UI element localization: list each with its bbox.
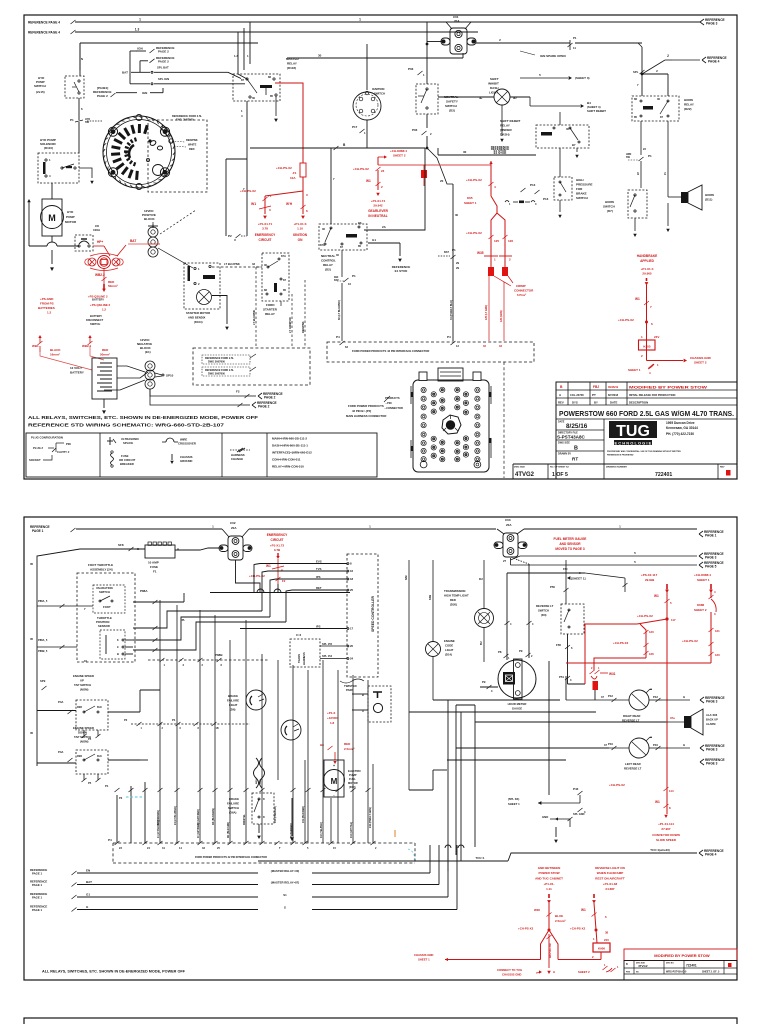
svg-text:25: 25 (350, 588, 354, 592)
svg-text:7: 7 (637, 83, 639, 87)
svg-text:BY: BY (594, 401, 598, 405)
svg-text:6: 6 (306, 209, 308, 213)
svg-text:HORN: HORN (705, 193, 714, 197)
red crimp connector label (494, 276, 511, 286)
svg-text:C03: C03 (505, 518, 511, 522)
wire horn relay top (641, 70, 643, 74)
svg-text:NEUTRAL: NEUTRAL (321, 254, 335, 258)
red chassis gnd arrow (647, 360, 684, 362)
svg-text:+P1-X1.72: +P1-X1.72 (270, 544, 285, 548)
wire bundle top verticals (239, 564, 241, 593)
svg-text:87A: 87A (320, 243, 325, 247)
svg-text:W31: W31 (609, 672, 616, 676)
twisted pair braid (254, 758, 259, 788)
svg-text:1: 1 (139, 18, 141, 22)
svg-text:LIGHT: LIGHT (229, 703, 238, 707)
alternator ref dashed box (148, 120, 207, 192)
svg-text:+P1-X1.74: +P1-X1.74 (371, 199, 386, 203)
svg-text:+P1-X1.38: +P1-X1.38 (603, 882, 618, 886)
svg-text:BAT: BAT (122, 71, 128, 75)
svg-text:PAGE 5: PAGE 5 (705, 565, 717, 569)
svg-text:...PIN: ...PIN (385, 401, 392, 405)
wire e1 to battery (104, 380, 145, 390)
svg-text:D: D (263, 816, 265, 819)
svg-text:BLOCK: BLOCK (144, 217, 155, 221)
wire e1 down bus (150, 389, 175, 396)
svg-text:+P1-X1:4: +P1-X1:4 (641, 267, 654, 271)
svg-text:W'H: W'H (286, 202, 293, 206)
svg-text:29: 29 (456, 261, 460, 265)
svg-text:10: 10 (84, 659, 88, 663)
svg-text:REVERSE LT: REVERSE LT (624, 767, 642, 771)
svg-text:1.3: 1.3 (234, 54, 238, 58)
alternator terminals (161, 126, 165, 130)
svg-text:17: 17 (350, 627, 354, 631)
svg-text:RED: RED (450, 598, 456, 602)
svg-text:T E C H N O L O G I E S: T E C H N O L O G I E S (611, 440, 655, 445)
svg-text:SPLICE: SPLICE (123, 441, 133, 445)
alternator bolt bosses (160, 168, 169, 177)
diagnostic dashed box p2 (368, 686, 391, 722)
svg-text:REV: REV (720, 467, 725, 469)
svg-text:P88A: P88A (140, 589, 148, 593)
svg-text:1: 1 (198, 267, 200, 271)
svg-text:REVERSE LT: REVERSE LT (536, 604, 554, 608)
svg-text:P17: P17 (352, 125, 358, 129)
connector corner pins (420, 461, 427, 468)
red square p2 (593, 681, 599, 690)
svg-text:DASH=HRN-660-2B-111-1: DASH=HRN-660-2B-111-1 (272, 444, 308, 448)
svg-text:WHITE: WHITE (188, 143, 197, 147)
svg-text:CROSSOVER: CROSSOVER (178, 442, 196, 446)
svg-text:GROUND: GROUND (180, 459, 192, 463)
svg-text:35: 35 (30, 731, 34, 735)
svg-text:BLK: BLK (97, 706, 102, 709)
svg-text:REV: REV (558, 401, 564, 405)
svg-text:+12VDC: +12VDC (327, 716, 339, 720)
legend chassis ground (171, 454, 173, 460)
svg-text:IPL: IPL (181, 618, 185, 622)
svg-text:PAGE 3: PAGE 3 (706, 762, 718, 766)
svg-text:REFERENCE FORD 2.5L: REFERENCE FORD 2.5L (172, 114, 202, 118)
svg-text:P88B: P88B (215, 653, 223, 657)
svg-text:125 (LT GRN): 125 (LT GRN) (485, 305, 488, 320)
svg-text:GRN: GRN (260, 779, 262, 784)
wire c02 dips (222, 529, 229, 537)
alternator small glyphs right (149, 140, 156, 147)
svg-text:SHIFT: SHIFT (490, 77, 499, 81)
reference page 4 arrow right (642, 60, 665, 74)
svg-text:DWG 3H87000: DWG 3H87000 (208, 373, 226, 376)
svg-text:1: 1 (241, 109, 243, 113)
svg-text:1: 1 (49, 158, 51, 162)
svg-text:M: M (331, 777, 338, 786)
svg-text:3: 3 (162, 727, 164, 730)
wire relay 87 down (341, 250, 343, 258)
right rear reverse lamp (629, 690, 649, 710)
svg-text:5: 5 (539, 73, 541, 77)
svg-text:SP9: SP9 (40, 679, 46, 683)
wire bat red v (104, 246, 110, 256)
svg-text:SW: SW (85, 121, 90, 124)
wire motor bottom bus (29, 245, 47, 247)
svg-text:HORN: HORN (605, 200, 614, 204)
svg-text:8: 8 (669, 806, 671, 810)
svg-text:ENGINE SPEED: ENGINE SPEED (73, 726, 94, 730)
svg-text:MODIFIED BY POWER STOW: MODIFIED BY POWER STOW (654, 953, 710, 958)
wire alternator dashes (160, 210, 196, 234)
wire ignition bus down x427 (426, 22, 428, 44)
svg-text:30: 30 (657, 97, 660, 101)
svg-text:BLK: BLK (97, 755, 102, 758)
svg-text:FORD: FORD (266, 303, 275, 307)
svg-text:P03: P03 (408, 67, 414, 71)
svg-text:SW: SW (626, 156, 631, 159)
svg-text:20: 20 (350, 644, 354, 648)
svg-text:SWITCH: SWITCH (99, 590, 110, 594)
svg-text:SHEET 1: SHEET 1 (508, 802, 520, 806)
42 pin connector body (413, 380, 489, 472)
svg-text:ENGINE SPEED: ENGINE SPEED (73, 674, 94, 678)
svg-text:6: 6 (651, 322, 653, 326)
legend box (26, 433, 377, 477)
svg-text:BATTERY: BATTERY (92, 298, 104, 302)
svg-text:P88A_5: P88A_5 (38, 599, 48, 603)
svg-text:18: 18 (350, 577, 354, 581)
svg-text:85: 85 (283, 288, 286, 292)
svg-text:8/25/16: 8/25/16 (566, 423, 588, 430)
connector pins (421, 387, 426, 392)
svg-text:1: 1 (657, 363, 659, 367)
svg-text:TCU=1: TCU=1 (476, 856, 485, 860)
svg-text:3: 3 (570, 678, 572, 682)
red crimp square on wire (421, 170, 427, 178)
svg-text:+P1-X: +P1-X (327, 711, 335, 715)
svg-text:P1: P1 (452, 248, 456, 252)
svg-text:P2: P2 (228, 234, 232, 238)
red horizontal y663 (566, 662, 711, 664)
svg-text:722401: 722401 (686, 964, 697, 968)
svg-text:PUMP: PUMP (66, 215, 75, 219)
svg-text:GND: GND (542, 815, 548, 819)
svg-text:4: 4 (241, 114, 243, 118)
svg-text:FUSE: FUSE (150, 565, 158, 569)
svg-text:BAT: BAT (86, 880, 92, 884)
svg-text:1: 1 (247, 54, 249, 58)
svg-text:RED/PNK: RED/PNK (301, 321, 305, 333)
svg-text:+CH-PS-X2: +CH-PS-X2 (353, 167, 369, 171)
svg-text:121: 121 (715, 629, 720, 633)
svg-text:85: 85 (634, 115, 637, 119)
svg-text:1: 1 (593, 937, 595, 941)
svg-text:B: B (343, 143, 346, 147)
svg-text:(D10): (D10) (349, 785, 356, 789)
svg-text:30: 30 (336, 253, 339, 257)
gnd arrow mid (291, 798, 293, 830)
svg-text:W1: W1 (266, 564, 271, 568)
svg-text:REFERENCE PAGE 4: REFERENCE PAGE 4 (28, 31, 60, 35)
svg-text:P4A: P4A (58, 750, 63, 754)
svg-text:2: 2 (202, 663, 204, 667)
svg-text:TRANS: TRANS (297, 654, 301, 663)
reference page 3 arrow top right (700, 19, 704, 22)
svg-text:DESCRIPTION: DESCRIPTION (629, 401, 648, 405)
wire ign to page2 ref (111, 93, 116, 97)
svg-text:P1: P1 (70, 118, 74, 122)
svg-text:722401: 722401 (655, 472, 672, 478)
svg-text:P13: P13 (543, 197, 549, 201)
svg-text:+PS-Q3/LINE 2: +PS-Q3/LINE 2 (90, 303, 111, 307)
svg-text:(MASTER RELAY=30): (MASTER RELAY=30) (271, 869, 299, 873)
wire neutral down p03-2 (426, 114, 428, 128)
svg-text:G: G (683, 695, 685, 699)
svg-text:+P1-X1.71: +P1-X1.71 (258, 222, 273, 226)
svg-text:P10: P10 (608, 742, 613, 746)
connector P1 hyd (75, 120, 83, 122)
svg-text:RDM/YEL: RDM/YEL (243, 814, 246, 825)
ground battery (103, 399, 105, 408)
wire sf8 fuse (122, 548, 145, 550)
svg-text:F60: F60 (563, 567, 568, 571)
svg-text:120: 120 (649, 630, 654, 634)
legend ultrasonic splice (109, 437, 111, 445)
svg-text:+CH-PS-X2: +CH-PS-X2 (613, 641, 629, 645)
svg-text:SOCKET: SOCKET (29, 458, 41, 462)
wire sheet4 arrow (529, 97, 531, 106)
svg-text:1.10: 1.10 (297, 227, 303, 231)
svg-text:63: 63 (345, 345, 348, 349)
svg-text:RED: RED (77, 755, 82, 758)
svg-text:1.3: 1.3 (135, 28, 140, 32)
svg-text:86: 86 (268, 75, 271, 79)
wire master relay 30 right (287, 57, 463, 59)
wire sheet3 arrow (520, 77, 568, 79)
wire alarm (666, 721, 684, 723)
svg-text:HYD: HYD (67, 210, 74, 214)
svg-text:C=2: C=2 (296, 633, 302, 637)
solenoid switch contact (61, 167, 63, 169)
svg-text:SWITCH: SWITCH (445, 104, 457, 108)
svg-text:30: 30 (322, 227, 325, 231)
svg-text:1 OF 5: 1 OF 5 (552, 472, 568, 478)
ground hyd motor (51, 250, 53, 264)
svg-text:LEFT REAR: LEFT REAR (625, 762, 641, 766)
svg-text:F1: F1 (153, 570, 157, 574)
title row A release (556, 397, 737, 399)
svg-text:G: G (284, 905, 286, 909)
svg-text:244 (PNK/LT GRN): 244 (PNK/LT GRN) (369, 807, 372, 828)
wire c03 right (524, 528, 697, 530)
svg-text:29.942: 29.942 (373, 204, 383, 208)
battery disconnect switch red (98, 256, 111, 269)
horn relay D22 (632, 96, 679, 121)
svg-text:B: B (117, 652, 119, 656)
svg-text:42 PIN B=-[P4]: 42 PIN B=-[P4] (352, 409, 371, 413)
svg-text:23: 23 (119, 846, 122, 850)
svg-text:BATTERY: BATTERY (70, 371, 84, 375)
svg-text:P3: P3 (119, 796, 123, 800)
svg-text:W35: W35 (477, 251, 484, 255)
svg-text:(UNDER: (UNDER (500, 128, 512, 132)
svg-text:9: 9 (117, 645, 119, 649)
svg-text:8: 8 (117, 638, 119, 642)
svg-text:P10: P10 (653, 743, 658, 747)
svg-text:ALA=306: ALA=306 (706, 713, 718, 717)
svg-text:C02: C02 (230, 521, 236, 525)
svg-text:RED/PNK: RED/PNK (186, 138, 198, 142)
svg-text:HOUR METER: HOUR METER (508, 702, 527, 706)
svg-text:B: B (574, 446, 578, 452)
svg-text:1: 1 (598, 666, 600, 670)
red diamond loop (541, 930, 550, 960)
node sp10 (162, 374, 164, 376)
svg-text:7: 7 (84, 607, 86, 611)
svg-text:T: T (279, 846, 281, 850)
svg-text:HORN: HORN (684, 98, 693, 102)
red mid connections (584, 623, 637, 625)
svg-text:M: M (48, 213, 56, 223)
svg-text:4: 4 (532, 623, 534, 626)
svg-text:FOOT THROTTLE: FOOT THROTTLE (88, 563, 113, 567)
svg-text:33: 33 (252, 262, 255, 266)
svg-text:MAIN=HRN-660-2B-111-2: MAIN=HRN-660-2B-111-2 (272, 437, 307, 441)
svg-text:CIRCUIT: CIRCUIT (271, 538, 284, 542)
svg-text:PAGE 2: PAGE 2 (258, 405, 270, 409)
svg-text:6: 6 (180, 727, 182, 730)
wire f2 row (175, 395, 250, 397)
svg-text:33: 33 (202, 846, 205, 850)
svg-text:CONNECTOR: CONNECTOR (514, 289, 534, 293)
page 3 border top (24, 1018, 737, 1024)
svg-text:+P1-X1:3: +P1-X1:3 (294, 222, 307, 226)
svg-text:1: 1 (164, 663, 166, 667)
controller lower pins (320, 645, 347, 647)
svg-text:3: 3 (535, 202, 537, 206)
svg-text:P50: P50 (550, 585, 555, 589)
svg-text:126 (GRN): 126 (GRN) (500, 310, 503, 322)
svg-text:+CH-PS-X2: +CH-PS-X2 (466, 178, 482, 182)
svg-text:37: 37 (601, 695, 604, 699)
svg-text:BU: BU (480, 641, 483, 645)
svg-text:3.78: 3.78 (262, 227, 268, 231)
wire c02 to c03 (249, 528, 496, 530)
svg-text:P12: P12 (608, 694, 613, 698)
svg-text:E1 STUD: E1 STUD (494, 151, 508, 155)
svg-text:PAGE 2: PAGE 2 (158, 50, 169, 54)
svg-text:87A: 87A (281, 254, 286, 258)
starter motor and bendix D104 (184, 263, 220, 309)
svg-text:SHEET 1: SHEET 1 (697, 578, 710, 582)
connector center key (442, 415, 461, 434)
red k906 box (593, 943, 610, 952)
svg-text:3: 3 (269, 208, 271, 212)
svg-text:CHASSIS GND: CHASSIS GND (502, 973, 521, 977)
svg-text:(NOM): (NOM) (80, 688, 88, 692)
wire c03 dips (497, 529, 504, 534)
svg-text:RED: RED (102, 348, 109, 352)
svg-text:TAP SWITCH: TAP SWITCH (74, 683, 91, 687)
svg-text:1: 1 (619, 525, 621, 529)
svg-text:WHEN FLEXRAMP: WHEN FLEXRAMP (597, 871, 624, 875)
svg-text:EN: EN (86, 869, 90, 873)
svg-text:HARNESS: HARNESS (302, 652, 306, 665)
wire f3 row (150, 389, 243, 405)
svg-text:20A: 20A (231, 526, 237, 530)
svg-text:15: 15 (333, 846, 336, 850)
svg-text:4: 4 (510, 623, 512, 626)
svg-text:16: 16 (350, 569, 354, 573)
svg-text:(D6): (D6) (230, 708, 236, 712)
svg-text:IGN: IGN (137, 47, 142, 51)
svg-text:(SHEET 3): (SHEET 3) (575, 76, 590, 80)
svg-text:PMS: PMS (626, 972, 631, 974)
svg-text:FBJ: FBJ (593, 385, 599, 389)
svg-text:B6: B6 (358, 221, 362, 225)
svg-text:BACK UP: BACK UP (706, 718, 718, 722)
svg-text:IPS: IPS (316, 624, 321, 628)
svg-text:BRAKE: BRAKE (576, 192, 587, 196)
svg-text:P9: P9 (482, 680, 486, 684)
svg-text:MOTOR: MOTOR (65, 220, 77, 224)
svg-text:FUEL: FUEL (349, 777, 356, 781)
svg-text:(5PL D4): (5PL D4) (508, 797, 519, 801)
svg-text:GEARLEVER: GEARLEVER (368, 209, 389, 213)
svg-text:8: 8 (350, 562, 352, 566)
wire starter out right (212, 296, 227, 325)
svg-text:AND TUG CABINET: AND TUG CABINET (535, 877, 563, 881)
svg-text:RELAY=HRN-CON-010: RELAY=HRN-CON-010 (272, 465, 304, 469)
svg-text:RELAY: RELAY (323, 263, 333, 267)
svg-text:MOTOR: MOTOR (348, 781, 358, 785)
svg-text:BATTERIES: BATTERIES (38, 306, 55, 310)
svg-text:(D104): (D104) (194, 320, 203, 324)
svg-text:CODE: CODE (445, 644, 453, 648)
svg-text:PAIR: PAIR (346, 688, 352, 692)
svg-text:H8: H8 (320, 743, 324, 747)
connector P13 glyphs (505, 201, 509, 203)
svg-text:REVERSE LT: REVERSE LT (622, 719, 640, 723)
svg-text:BATTERY: BATTERY (90, 314, 102, 318)
svg-text:BRAKE: BRAKE (228, 694, 238, 698)
sheet1 arrow p2 (567, 576, 570, 580)
ground horn switch (634, 218, 636, 231)
wire 30 long right (438, 154, 536, 156)
svg-text:NO. OF SHEET S2: NO. OF SHEET S2 (550, 467, 570, 469)
arrow below brake switch (258, 824, 260, 833)
wire block diag to starter (158, 248, 193, 268)
svg-text:6: 6 (81, 107, 83, 111)
svg-text:SPL 154: SPL 154 (322, 654, 333, 658)
svg-text:30 (GRY/RED): 30 (GRY/RED) (197, 809, 200, 825)
wire ignition down to B line (366, 120, 368, 148)
svg-text:117: 117 (671, 618, 676, 622)
svg-text:50mm²: 50mm² (108, 284, 118, 288)
reference ford dashed box (193, 348, 310, 385)
svg-text:14: 14 (179, 846, 182, 850)
svg-text:U: U (234, 238, 236, 242)
svg-text:W1: W1 (366, 179, 371, 183)
svg-text:SHEET 2: SHEET 2 (393, 154, 406, 158)
svg-text:+CH-PS-X2: +CH-PS-X2 (618, 318, 634, 322)
svg-text:87: 87 (283, 278, 286, 282)
svg-text:3: 3 (491, 689, 493, 693)
svg-text:BAT: BAT (444, 251, 449, 254)
svg-text:ENG. 3H87000: ENG. 3H87000 (176, 118, 194, 122)
ford starter relay (262, 253, 289, 301)
svg-text:BAT: BAT (130, 239, 136, 243)
svg-text:REVERSE LIGHT ON: REVERSE LIGHT ON (595, 866, 625, 870)
wire horn relay 85 down (640, 121, 642, 155)
